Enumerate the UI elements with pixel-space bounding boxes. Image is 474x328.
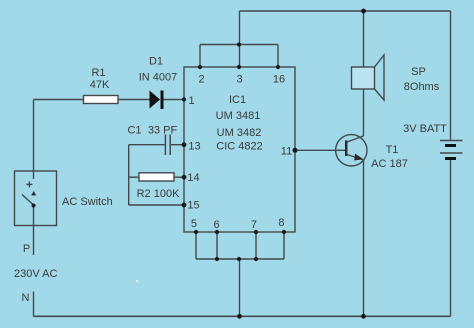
svg-text:8: 8	[278, 217, 284, 229]
svg-text:3V BATT: 3V BATT	[403, 123, 447, 135]
svg-text:33 PF: 33 PF	[148, 125, 178, 137]
svg-text:R2 100K: R2 100K	[137, 188, 180, 200]
svg-text:N: N	[22, 292, 30, 304]
svg-text:IN 4007: IN 4007	[139, 72, 178, 84]
svg-text:D1: D1	[149, 56, 163, 68]
svg-text:8Ohms: 8Ohms	[404, 81, 440, 93]
svg-text:11: 11	[281, 146, 292, 158]
svg-text:UM 3481: UM 3481	[216, 110, 261, 122]
svg-text:1: 1	[188, 95, 194, 107]
svg-text:P: P	[23, 243, 30, 255]
svg-text:16: 16	[273, 74, 285, 86]
svg-text:13: 13	[188, 141, 200, 153]
svg-text:230V AC: 230V AC	[14, 268, 57, 280]
svg-text:AC 187: AC 187	[371, 158, 408, 170]
svg-text:R1: R1	[91, 67, 105, 79]
svg-text:T1: T1	[386, 144, 399, 156]
svg-text:IC1: IC1	[229, 94, 246, 106]
svg-text:5: 5	[191, 218, 197, 230]
svg-text:6: 6	[214, 219, 220, 231]
svg-text:SP: SP	[411, 66, 426, 78]
svg-text:C1: C1	[127, 125, 141, 137]
svg-text:3: 3	[236, 74, 242, 86]
svg-text:47K: 47K	[90, 79, 110, 91]
svg-text:7: 7	[251, 219, 257, 231]
svg-text:UM 3482: UM 3482	[217, 127, 262, 139]
svg-text:14: 14	[187, 172, 199, 184]
svg-text:2: 2	[198, 74, 204, 86]
svg-text:15: 15	[187, 200, 199, 212]
svg-text:CIC 4822: CIC 4822	[216, 141, 262, 153]
svg-text:AC Switch: AC Switch	[62, 196, 113, 208]
